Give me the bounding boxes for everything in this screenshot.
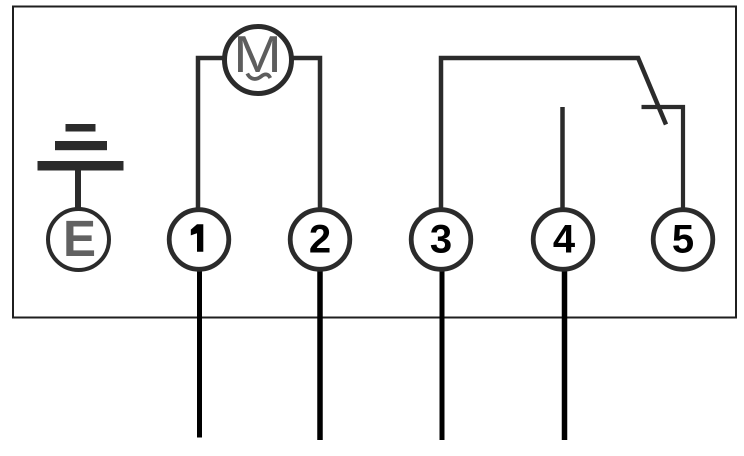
earth electrode plate bottom	[38, 161, 124, 171]
motor M1 circle	[225, 27, 292, 94]
wire lead below terminal 2	[317, 268, 323, 440]
enclosure box	[13, 7, 736, 318]
svg-text:3: 3	[430, 218, 452, 262]
earth electrode plate top	[66, 124, 96, 132]
terminal 3 circle	[411, 210, 471, 270]
wire lead below terminal 3	[440, 268, 445, 440]
wire lead below terminal 4	[562, 268, 568, 440]
wire terminal3 riser and top run	[441, 58, 639, 212]
wire terminal1 to motor left	[198, 58, 228, 212]
earth terminal E circle	[48, 209, 109, 270]
svg-text:E: E	[63, 210, 96, 267]
wire lead below terminal 1	[197, 268, 202, 438]
switch blade S1	[638, 57, 667, 125]
terminal 2 circle	[290, 210, 350, 270]
terminal 1 label	[191, 224, 204, 251]
wire terminal2 to motor right	[290, 58, 320, 212]
svg-text:M: M	[233, 25, 282, 83]
earth electrode plate middle	[55, 141, 107, 150]
svg-text:2: 2	[309, 218, 331, 262]
switch contact bar and terminal5 riser	[642, 107, 684, 212]
svg-text:4: 4	[553, 218, 576, 262]
terminal 5 circle	[653, 210, 713, 270]
motor M1 AC tilde	[247, 74, 270, 79]
earth stem wire	[75, 170, 81, 212]
svg-text:5: 5	[672, 218, 694, 262]
wire terminal4 stub	[560, 107, 565, 212]
terminal 1 circle	[169, 210, 229, 270]
terminal 4 circle	[533, 210, 593, 270]
